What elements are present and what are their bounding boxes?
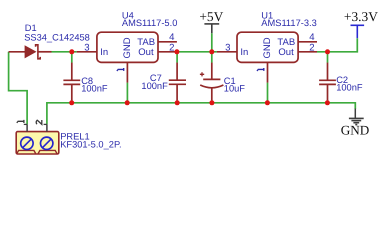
svg-text:AMS1117-3.3: AMS1117-3.3 xyxy=(261,18,316,28)
label C1 value 10uF xyxy=(224,84,246,94)
label D1 refdes xyxy=(25,23,37,33)
svg-text:100nF: 100nF xyxy=(336,83,363,93)
U1 pin name GND rotated xyxy=(262,37,273,58)
label C2 refdes xyxy=(336,75,348,85)
svg-text:Out: Out xyxy=(138,47,154,58)
diode D1 xyxy=(9,45,52,59)
junction node rail U4 gnd xyxy=(125,100,130,105)
U1 pin number 3 xyxy=(225,42,230,53)
connector PREL1 KF301-5.0_2P xyxy=(16,132,59,154)
junction node U1 out / C2 xyxy=(325,49,330,54)
U4 pin name GND rotated xyxy=(122,37,133,58)
connector pin 1 stub xyxy=(24,124,27,131)
junction node rail C8 xyxy=(69,100,74,105)
label PREL1 value KF301-5.0_2P. xyxy=(60,140,121,150)
svg-text:In: In xyxy=(100,47,108,58)
U4 pin number 1 rotated xyxy=(117,68,124,71)
label U4 refdes xyxy=(122,11,134,21)
U4 pin number 2 xyxy=(169,42,174,53)
U4 pin number 4 xyxy=(169,32,175,43)
U1 pin name In xyxy=(240,47,248,58)
wire bottom ground rail xyxy=(47,103,355,125)
junction node diode-C8 xyxy=(69,49,74,54)
label C7 refdes xyxy=(150,73,162,83)
svg-text:+5V: +5V xyxy=(199,9,223,24)
svg-text:2: 2 xyxy=(309,42,314,53)
svg-text:GND: GND xyxy=(122,37,133,58)
junction node rail C1 xyxy=(209,100,214,105)
svg-text:SS34_C142458: SS34_C142458 xyxy=(24,33,90,43)
svg-text:100nF: 100nF xyxy=(81,84,108,94)
svg-text:100nF: 100nF xyxy=(141,81,168,91)
connector terminal circle 2 xyxy=(41,137,53,149)
label C2 value 100nF xyxy=(336,83,363,93)
capacitor C8 xyxy=(63,63,80,101)
junction node rail C7 xyxy=(175,100,180,105)
connector pin number 1 rotated xyxy=(17,120,24,123)
junction node +5V / C1 xyxy=(209,49,214,54)
U1 pin 1 GND stub xyxy=(267,62,269,82)
wire C2 branch vertical xyxy=(327,52,329,103)
regulator U4 AMS1117-5.0 xyxy=(97,32,158,62)
U1 pin number 1 rotated xyxy=(257,68,264,71)
svg-text:10uF: 10uF xyxy=(224,84,246,94)
connector pin 2 stub xyxy=(44,124,47,131)
svg-text:GND: GND xyxy=(262,37,273,58)
junction node rail C2 xyxy=(325,100,330,105)
U1 pin 2 Out stub xyxy=(298,51,317,53)
svg-text:AMS1117-5.0: AMS1117-5.0 xyxy=(122,18,177,28)
wire C7 branch vertical xyxy=(176,52,178,103)
power flag +3.3V xyxy=(344,9,378,38)
U4 pin 1 GND stub xyxy=(126,62,128,82)
junction node U4 out / C7 xyxy=(174,49,179,54)
wire U1 gnd pin to rail xyxy=(267,83,269,103)
connector pin number 2 rotated xyxy=(36,120,42,124)
U4 pin name Out xyxy=(138,47,154,58)
wire +5V branch vertical xyxy=(211,33,213,52)
power flag +5V xyxy=(199,9,223,33)
svg-text:GND: GND xyxy=(341,123,370,138)
U1 pin name TAB xyxy=(277,37,295,48)
U1 pin number 4 xyxy=(309,32,315,43)
U4 pin name In xyxy=(100,47,108,58)
wire C8 branch vertical xyxy=(71,52,73,103)
label D1 value SS34_C142458 xyxy=(24,33,90,43)
regulator U1 AMS1117-3.3 xyxy=(237,32,298,62)
label C7 value 100nF xyxy=(141,81,168,91)
junction node rail U1 gnd xyxy=(265,100,270,105)
wire U1 out to +3.3V flag xyxy=(317,38,357,52)
svg-text:In: In xyxy=(240,47,248,58)
wire left vertical from diode anode down xyxy=(9,52,28,125)
U4 pin name TAB xyxy=(137,37,155,48)
U4 pin 4 TAB stub xyxy=(158,41,177,43)
svg-text:Out: Out xyxy=(278,47,294,58)
capacitor C2 xyxy=(319,63,336,101)
label U4 value AMS1117-5.0 xyxy=(122,18,177,28)
U4 pin 3 In stub xyxy=(77,51,97,53)
svg-text:2: 2 xyxy=(169,42,174,53)
U4 pin number 3 xyxy=(84,42,89,53)
wire U4 gnd pin to rail xyxy=(126,83,128,103)
U1 pin name Out xyxy=(278,47,294,58)
capacitor C7 xyxy=(169,63,186,101)
label PREL1 refdes xyxy=(60,131,89,141)
U1 pin 4 TAB stub xyxy=(298,41,317,43)
U1 pin 3 In stub xyxy=(217,51,237,53)
wire C1 branch vertical xyxy=(211,52,213,103)
wire U4 out to U1 in xyxy=(177,51,217,53)
svg-text:KF301-5.0_2P.: KF301-5.0_2P. xyxy=(60,140,121,150)
U1 pin number 2 xyxy=(309,42,314,53)
wire top net diode to U4 xyxy=(52,51,77,53)
label C8 refdes xyxy=(81,76,93,86)
ground symbol GND xyxy=(341,109,370,138)
svg-text:+3.3V: +3.3V xyxy=(344,9,378,24)
label U1 value AMS1117-3.3 xyxy=(261,18,316,28)
label C8 value 100nF xyxy=(81,84,108,94)
label U1 refdes xyxy=(261,11,273,21)
svg-text:3: 3 xyxy=(84,42,89,53)
label C1 refdes xyxy=(224,76,236,86)
svg-text:3: 3 xyxy=(225,42,230,53)
connector terminal circle 1 xyxy=(21,137,33,149)
capacitor C1 polarized xyxy=(200,63,224,101)
U4 pin 2 Out stub xyxy=(158,51,177,53)
